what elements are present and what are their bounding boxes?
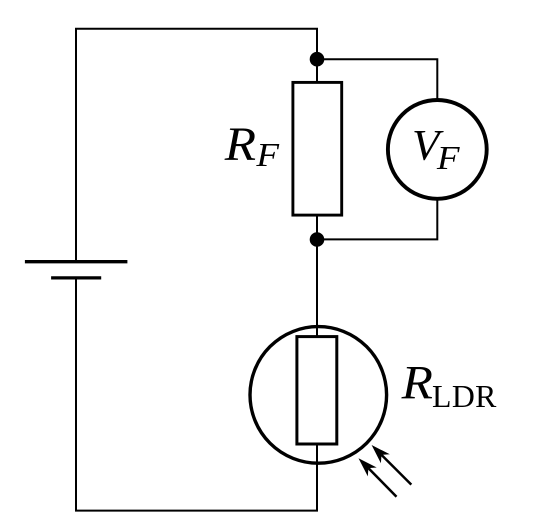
svg-text:LDR: LDR [432, 379, 497, 414]
svg-text:R: R [401, 358, 434, 410]
svg-text:F: F [255, 137, 280, 174]
voltmeter VF (meter circle) [388, 100, 487, 199]
wire: node A down to resistor RF top [316, 59, 318, 81]
battery BAT: short plate (negative) [51, 276, 101, 279]
label RLDR [401, 358, 498, 414]
wire: node A to voltmeter top terminal [317, 59, 437, 99]
light arrow 2 (lower) [359, 458, 397, 497]
wire: battery positive to top-left corner, across top, down to node A [76, 29, 317, 260]
wire: voltmeter bottom terminal to node B [317, 200, 437, 239]
resistor RF (body) [293, 82, 342, 215]
wire: resistor RF bottom to node B [316, 216, 318, 240]
photoresistor RLDR: outer circle [250, 327, 387, 464]
svg-text:F: F [436, 140, 461, 177]
wire: LDR bottom, down and across bottom, up to battery negative [76, 280, 317, 511]
label VF [412, 123, 461, 177]
wire: node B down into LDR [316, 240, 318, 337]
light arrow 1 (upper) [372, 445, 412, 485]
node B (junction dot, bottom) [310, 232, 325, 247]
label RF [224, 119, 281, 174]
battery BAT: long plate (positive) [25, 260, 128, 263]
svg-text:R: R [224, 119, 257, 171]
node A (junction dot, top) [310, 52, 325, 67]
photoresistor RLDR: resistor body [297, 337, 337, 444]
